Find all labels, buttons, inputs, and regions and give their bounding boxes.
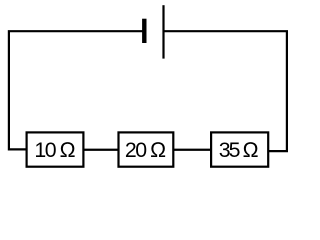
svg-text:10 Ω: 10 Ω bbox=[34, 138, 76, 162]
svg-text:35 Ω: 35 Ω bbox=[219, 138, 259, 162]
svg-text:20 Ω: 20 Ω bbox=[125, 138, 167, 162]
